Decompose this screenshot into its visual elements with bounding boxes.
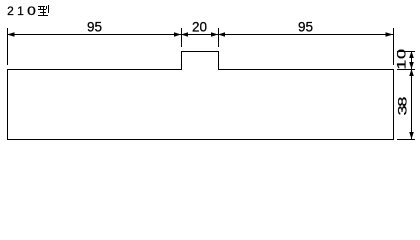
- svg-text:95: 95: [87, 20, 102, 35]
- svg-text:1: 1: [395, 60, 409, 70]
- svg-text:0: 0: [27, 4, 36, 18]
- svg-text:0: 0: [395, 48, 409, 59]
- svg-text:95: 95: [298, 20, 313, 35]
- svg-text:2: 2: [7, 4, 14, 18]
- svg-text:20: 20: [192, 20, 207, 35]
- svg-text:1: 1: [17, 4, 24, 18]
- svg-text:3: 3: [396, 105, 410, 115]
